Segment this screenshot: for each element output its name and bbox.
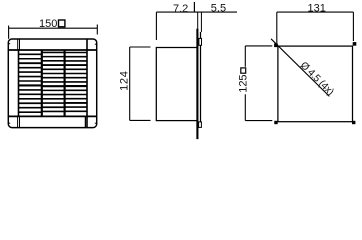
grille right edge bbox=[86, 39, 88, 128]
dim 150 line bbox=[9, 27, 98, 29]
tab top bbox=[199, 38, 202, 45]
extension to body bbox=[155, 12, 157, 40]
extension lines to plate bbox=[197, 12, 199, 29]
dim 125 square symbol bbox=[241, 68, 246, 73]
dim 125 top hook bbox=[245, 45, 272, 47]
mounting hole TR bbox=[353, 42, 357, 46]
corner cap nub BL bbox=[8, 122, 10, 124]
dim line 7.2 / 5.5 bbox=[156, 11, 237, 13]
corner cap nub TR bbox=[95, 43, 97, 45]
dim 150 left tick bbox=[8, 26, 10, 39]
plate back bbox=[278, 46, 353, 122]
tab bottom bbox=[199, 122, 202, 128]
dim 125 upper segment bbox=[244, 46, 246, 67]
dim 150 square symbol bbox=[59, 20, 65, 27]
corner cap seams top-left bbox=[17, 39, 19, 50]
dim 131 line bbox=[277, 11, 354, 13]
svg-text:Ø 4.5 (4x): Ø 4.5 (4x) bbox=[298, 60, 336, 98]
svg-text:7.2: 7.2 bbox=[173, 3, 188, 15]
louver slats bbox=[19, 53, 42, 55]
svg-text:124: 124 bbox=[119, 70, 131, 90]
dim 125 bottom hook bbox=[245, 120, 272, 122]
svg-text:131: 131 bbox=[308, 3, 326, 15]
grille divider 2 bbox=[64, 50, 66, 116]
grille left edge bbox=[18, 50, 20, 116]
svg-text:150: 150 bbox=[39, 18, 57, 30]
svg-text:5.5: 5.5 bbox=[211, 3, 226, 15]
tick between 7.2 and 5.5 bbox=[193, 2, 195, 12]
dim 150 right tick bbox=[96, 25, 98, 35]
dim 125 lower segment bbox=[244, 94, 246, 120]
svg-text:125: 125 bbox=[237, 74, 249, 92]
leader 4.5 bbox=[271, 39, 329, 97]
corner cap nub TL bbox=[8, 43, 10, 45]
corner cap seam bottom-right bbox=[84, 116, 86, 127]
wall plate back line bbox=[200, 32, 202, 122]
grille divider 1 bbox=[41, 50, 43, 116]
grille top rail bbox=[8, 49, 96, 51]
body bbox=[156, 48, 197, 121]
bezel outer bbox=[8, 39, 96, 128]
mounting hole BR bbox=[352, 121, 355, 124]
mounting hole BL bbox=[274, 121, 277, 124]
grille bottom rail bbox=[8, 115, 96, 117]
mounting hole TL bbox=[274, 43, 278, 47]
corner cap nub BR bbox=[95, 122, 97, 124]
corner cap seams bottom-left bbox=[17, 116, 19, 127]
wall plate front line bbox=[196, 29, 198, 140]
